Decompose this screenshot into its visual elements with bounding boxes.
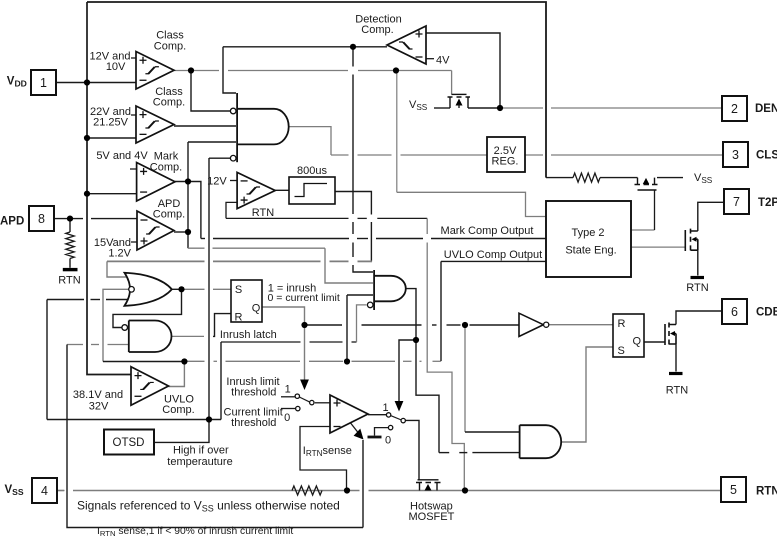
svg-text:1: 1 [383, 402, 389, 414]
svg-text:3: 3 [732, 148, 739, 162]
svg-text:threshold: threshold [231, 387, 276, 399]
svg-text:High if over: High if over [173, 445, 229, 457]
svg-text:RTN: RTN [756, 486, 777, 498]
svg-text:4: 4 [41, 484, 48, 498]
svg-text:temperauture: temperauture [167, 456, 232, 468]
svg-text:800us: 800us [297, 165, 327, 177]
svg-text:S: S [618, 345, 625, 357]
svg-text:5: 5 [730, 483, 737, 497]
svg-text:RTN: RTN [58, 275, 80, 287]
svg-text:8: 8 [38, 212, 45, 226]
svg-text:4V: 4V [436, 55, 450, 67]
svg-text:0: 0 [385, 435, 391, 447]
svg-text:Mark Comp Output: Mark Comp Output [441, 225, 534, 237]
svg-text:RTN: RTN [686, 282, 708, 294]
svg-text:Type 2: Type 2 [571, 227, 604, 239]
svg-text:10V: 10V [106, 61, 126, 73]
svg-text:2: 2 [731, 102, 738, 116]
svg-text:21.25V: 21.25V [93, 117, 129, 129]
svg-text:0 = current limit: 0 = current limit [268, 292, 340, 304]
svg-text:IRTN sense,1 if < 90% of inrus: IRTN sense,1 if < 90% of inrush current … [97, 526, 293, 538]
svg-text:S: S [235, 284, 242, 296]
svg-text:Q: Q [633, 336, 642, 348]
svg-text:REG.: REG. [492, 156, 519, 168]
svg-text:Comp.: Comp. [153, 97, 185, 109]
svg-text:R: R [618, 318, 626, 330]
svg-text:APD: APD [0, 216, 24, 228]
svg-text:R: R [235, 312, 243, 324]
svg-text:Comp.: Comp. [150, 162, 182, 174]
svg-text:5V and 4V: 5V and 4V [96, 150, 148, 162]
svg-text:DEN: DEN [755, 103, 777, 115]
svg-text:UVLO Comp Output: UVLO Comp Output [444, 249, 542, 261]
svg-text:CLS: CLS [756, 150, 777, 162]
svg-text:6: 6 [731, 305, 738, 319]
svg-text:T2P: T2P [758, 197, 777, 209]
svg-text:Q: Q [252, 303, 261, 315]
svg-text:1.2V: 1.2V [108, 248, 131, 260]
svg-text:32V: 32V [89, 401, 109, 413]
svg-text:RTN: RTN [252, 207, 274, 219]
svg-text:1: 1 [285, 384, 291, 396]
svg-text:OTSD: OTSD [113, 437, 145, 449]
svg-text:7: 7 [733, 195, 740, 209]
svg-text:CDB: CDB [756, 307, 777, 319]
svg-text:38.1V and: 38.1V and [73, 389, 123, 401]
svg-text:RTN: RTN [666, 385, 688, 397]
svg-text:Comp.: Comp. [154, 41, 186, 53]
svg-text:State Eng.: State Eng. [565, 245, 616, 257]
svg-text:Comp.: Comp. [162, 404, 194, 416]
svg-text:0: 0 [284, 412, 290, 424]
svg-text:1: 1 [40, 76, 47, 90]
svg-text:Comp.: Comp. [361, 24, 393, 36]
svg-text:MOSFET: MOSFET [408, 511, 454, 523]
svg-text:Inrush latch: Inrush latch [220, 329, 277, 341]
svg-text:12V: 12V [207, 176, 227, 188]
svg-text:Comp.: Comp. [153, 209, 185, 221]
svg-text:threshold: threshold [231, 417, 276, 429]
